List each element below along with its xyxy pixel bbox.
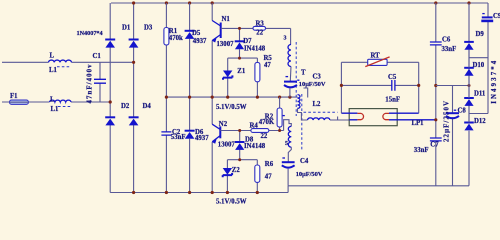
svg-text:IN4148: IN4148 bbox=[244, 45, 266, 52]
node: top rail / R1 column junction bbox=[165, 1, 168, 4]
svg-text:4937: 4937 bbox=[195, 135, 209, 142]
svg-text:T: T bbox=[301, 69, 306, 76]
node: top rail / C6 column junction bbox=[434, 1, 437, 4]
svg-text:22μF/250V: 22μF/250V bbox=[444, 100, 451, 142]
transformer core dash line A bbox=[295, 42, 297, 116]
wire: half-bridge center column (N1 collector / emitter, N2 collector) bbox=[211, 3, 213, 193]
resistor R5 bbox=[256, 58, 258, 97]
pin tick at lamp left bbox=[337, 117, 339, 121]
wire: bottom rail left section bbox=[110, 192, 288, 194]
svg-text:10μF/50V: 10μF/50V bbox=[299, 81, 326, 88]
svg-text:Z1: Z1 bbox=[237, 68, 246, 75]
node: mid node / Z1 junction bbox=[226, 96, 229, 99]
svg-text:1N4007*4: 1N4007*4 bbox=[77, 30, 103, 37]
wire: bottom AC input line bbox=[2, 101, 110, 103]
capacitor C1 plates bbox=[94, 79, 106, 83]
transformer T winding W2 (primary) bbox=[298, 95, 300, 109]
node: bottom rail / C2 junction bbox=[165, 191, 168, 194]
svg-text:D7: D7 bbox=[243, 38, 252, 45]
capacitor C4 (electrolytic) bbox=[282, 161, 295, 163]
transformer core dash line B bbox=[301, 94, 303, 150]
capacitor C9 (electrolytic) bbox=[482, 16, 493, 18]
wire: top DC rail bbox=[111, 2, 488, 4]
node: dot D8 bottom bbox=[238, 158, 241, 161]
svg-text:D3: D3 bbox=[144, 25, 153, 32]
svg-text:C1: C1 bbox=[93, 53, 102, 60]
node: top rail / N1 collector junction bbox=[211, 1, 214, 4]
svg-text:D9: D9 bbox=[476, 31, 485, 38]
node: dot charge wire at diode chain bbox=[468, 84, 471, 87]
node: mid node / R2 junction bbox=[278, 96, 281, 99]
diode D5 bbox=[185, 30, 195, 32]
node: C6 column / charge-pump wire junction bbox=[434, 84, 437, 87]
svg-text:IN4148: IN4148 bbox=[244, 143, 266, 150]
svg-text:R4: R4 bbox=[250, 123, 259, 130]
node: top rail / D3 column junction bbox=[132, 1, 135, 4]
wire: starter network right vertical bbox=[418, 62, 420, 113]
wire: W2 bottom lead step to L2 bbox=[298, 108, 308, 120]
svg-text:47: 47 bbox=[265, 174, 272, 181]
svg-text:D11: D11 bbox=[474, 91, 486, 98]
svg-text:C3: C3 bbox=[313, 73, 322, 80]
wire: bottom rail right section bbox=[288, 185, 469, 187]
svg-text:Z2: Z2 bbox=[232, 167, 241, 174]
zener Z2 bbox=[226, 160, 228, 193]
resistor R6 bbox=[256, 160, 258, 193]
svg-text:470K: 470K bbox=[259, 119, 275, 126]
resistor R1 bbox=[164, 28, 169, 46]
lamp LP1 tube bbox=[349, 109, 397, 126]
wire: C3 bottom lead bbox=[289, 88, 291, 97]
wire: R1/C2 column bbox=[165, 3, 167, 193]
core dashes under top inductor bbox=[57, 66, 71, 68]
svg-text:R6: R6 bbox=[265, 161, 274, 168]
capacitor C5 plates bbox=[392, 80, 395, 91]
svg-text:33nF: 33nF bbox=[414, 147, 429, 154]
node: bottom rail / N2 emitter junction bbox=[211, 191, 214, 194]
svg-text:4937: 4937 bbox=[193, 38, 207, 45]
diode D1 bbox=[105, 39, 115, 41]
svg-text:13007: 13007 bbox=[218, 142, 236, 149]
svg-text:470k: 470k bbox=[169, 35, 183, 42]
wire: C4 bottom lead bbox=[287, 169, 289, 186]
svg-text:5.1V/0.5W: 5.1V/0.5W bbox=[216, 104, 247, 111]
wire: bridge column D1/D2 bbox=[109, 3, 111, 193]
svg-text:33nF: 33nF bbox=[442, 46, 457, 53]
node: junction dot top AC at D3 column bbox=[132, 61, 135, 64]
svg-text:L: L bbox=[50, 96, 55, 103]
transistor N2 bbox=[212, 124, 220, 144]
svg-text:47: 47 bbox=[264, 62, 271, 69]
lamp left filament bbox=[357, 113, 363, 119]
pin tick W3 top bbox=[283, 115, 285, 117]
svg-text:D2: D2 bbox=[121, 103, 130, 110]
pin tick C3 right bbox=[297, 79, 299, 81]
node: mid node / R1-C2 column junction bbox=[165, 96, 168, 99]
zener Z1 bbox=[227, 58, 229, 97]
diode D11 bbox=[464, 97, 474, 99]
polarity tick C3 bbox=[286, 76, 289, 78]
diode D6 bbox=[185, 130, 195, 132]
svg-text:D4: D4 bbox=[143, 103, 152, 110]
wire: lower auxiliary line (Z2/D8/R6) bbox=[227, 159, 257, 161]
wire: C6/C7 column bbox=[435, 3, 437, 186]
svg-text:L2: L2 bbox=[313, 101, 322, 108]
node: C5 branch right junction bbox=[417, 84, 420, 87]
node: dot D7 bottom bbox=[238, 57, 241, 60]
diode D4 bbox=[129, 116, 139, 118]
polarity tick C4 bbox=[282, 157, 285, 159]
svg-text:D5: D5 bbox=[192, 30, 201, 37]
capacitor C6 plates bbox=[430, 42, 442, 45]
wire: tap D11/D12 to C9 column bbox=[469, 113, 488, 115]
node: bottom rail / D6 junction bbox=[188, 191, 191, 194]
svg-text:D10: D10 bbox=[473, 62, 485, 69]
svg-text:LP1: LP1 bbox=[412, 120, 425, 127]
svg-text:IN4937*4: IN4937*4 bbox=[491, 59, 498, 104]
inductor L (bottom winding of line filter) bbox=[50, 100, 72, 102]
svg-text:10μF/50V: 10μF/50V bbox=[296, 171, 323, 178]
wire: bottom rail step bbox=[287, 186, 289, 193]
wire: starter network left vertical bbox=[340, 62, 342, 113]
fuse F1 bbox=[10, 100, 29, 104]
resistor R4 bbox=[251, 129, 269, 133]
svg-text:L1: L1 bbox=[49, 67, 58, 74]
wire: diode chain mid leads bbox=[468, 50, 470, 123]
svg-text:5.1V/0.5W: 5.1V/0.5W bbox=[216, 198, 247, 205]
wire: N2 base line bbox=[220, 120, 291, 131]
svg-text:R3: R3 bbox=[256, 21, 265, 28]
transformer T winding W3 bbox=[288, 126, 291, 147]
core dashes under bottom inductor bbox=[58, 106, 71, 108]
svg-text:F1: F1 bbox=[10, 93, 18, 100]
node: C5 branch left junction bbox=[340, 84, 343, 87]
wire: half-bridge mid node bbox=[166, 96, 297, 98]
node: top rail / D5 column junction bbox=[188, 1, 191, 4]
diode D12 bbox=[464, 122, 474, 124]
polarity tick C8 bbox=[454, 109, 456, 111]
svg-text:L: L bbox=[50, 53, 55, 60]
svg-text:3: 3 bbox=[284, 36, 287, 42]
svg-text:13007: 13007 bbox=[217, 41, 235, 48]
capacitor C1 branch leads bbox=[99, 62, 101, 102]
node: bottom rail / D4 junction bbox=[132, 191, 135, 194]
node: mid node / D5-D6 column junction bbox=[188, 96, 191, 99]
node: dot D7 top bbox=[238, 27, 241, 30]
svg-text:5: 5 bbox=[285, 141, 288, 147]
diode D9 bbox=[464, 41, 474, 43]
diode D3 bbox=[129, 39, 139, 41]
node: bottom rail / Z2 junction bbox=[226, 191, 229, 194]
wire: tap D9/D10 to C9 column bbox=[469, 57, 488, 59]
resistor R3 bbox=[253, 26, 266, 30]
svg-text:RT: RT bbox=[371, 52, 381, 59]
wire: C9 column bbox=[487, 3, 489, 114]
diode D7 branch bbox=[239, 28, 241, 58]
svg-text:N2: N2 bbox=[219, 121, 228, 128]
transistor N1 bbox=[212, 21, 221, 43]
capacitor C3 (electrolytic) bbox=[284, 81, 297, 83]
inductor L2 core dash line bbox=[304, 111, 338, 113]
svg-text:C6: C6 bbox=[442, 36, 451, 43]
capacitor C7 plates bbox=[430, 138, 442, 141]
node: bottom rail / R6 junction bbox=[256, 191, 259, 194]
inductor L2 bbox=[308, 118, 330, 120]
thermistor RT bbox=[368, 59, 387, 65]
node: mid node / C3 junction bbox=[288, 96, 291, 99]
wire: bridge column D3/D4 bbox=[133, 3, 135, 193]
svg-text:C5: C5 bbox=[388, 74, 397, 81]
node: top rail / D9 column junction bbox=[467, 1, 470, 4]
wire: C5 branch bbox=[341, 84, 418, 86]
svg-text:L1: L1 bbox=[51, 106, 60, 113]
wire: diode chain column D9-D12 bbox=[468, 3, 470, 186]
svg-text:D1: D1 bbox=[122, 25, 131, 32]
node: junction dot bottom AC at D1 column bbox=[109, 100, 112, 103]
wire: starter network top branch bbox=[341, 61, 418, 63]
transformer T winding W1 bbox=[288, 45, 291, 67]
svg-text:22: 22 bbox=[256, 30, 263, 37]
svg-text:47nF/400v: 47nF/400v bbox=[86, 63, 93, 103]
svg-text:53nF: 53nF bbox=[171, 134, 186, 141]
svg-text:C8: C8 bbox=[458, 108, 467, 115]
node: dot D8 top bbox=[238, 129, 241, 132]
wire: charge pump horizontal bbox=[436, 85, 469, 87]
wire: W1 bottom lead to C3 bbox=[289, 67, 292, 82]
node: C6 column / lamp return junction bbox=[434, 118, 437, 121]
lamp right filament pins bbox=[389, 113, 436, 120]
capacitor C2 plates bbox=[161, 132, 171, 135]
svg-text:C4: C4 bbox=[300, 158, 309, 165]
wire: stub bracket right of W2 bbox=[304, 88, 308, 98]
inductor L (top winding of line filter) bbox=[49, 60, 72, 62]
diode D8 branch bbox=[239, 131, 241, 160]
svg-text:C9: C9 bbox=[493, 13, 500, 20]
capacitor C8 branch (electrolytic) bbox=[452, 86, 454, 186]
node: mid node / R5 junction bbox=[256, 96, 259, 99]
svg-text:N1: N1 bbox=[222, 16, 231, 23]
node: dot R2 bottom bbox=[278, 129, 281, 132]
svg-text:D12: D12 bbox=[474, 118, 486, 125]
wire: upper auxiliary line (Z1/D7/R5) bbox=[228, 57, 258, 59]
diode D10 bbox=[464, 67, 474, 69]
diode D2 bbox=[105, 116, 115, 118]
wire: top AC input line bbox=[2, 61, 134, 63]
wire: W3 bottom lead to C4 bbox=[288, 147, 291, 161]
svg-text:22: 22 bbox=[261, 133, 268, 140]
wire: D5/D6 column bbox=[189, 3, 191, 193]
polarity tick C9 bbox=[482, 13, 484, 15]
svg-text:C7: C7 bbox=[430, 141, 439, 148]
node: mid node / emitter column junction bbox=[211, 96, 214, 99]
lamp left filament pins bbox=[341, 113, 357, 120]
resistor R2 bbox=[279, 97, 281, 130]
svg-text:15nF: 15nF bbox=[385, 96, 400, 103]
lamp right filament bbox=[383, 113, 389, 119]
wire: N1 base line bbox=[221, 28, 291, 44]
wire: L2 to lamp bottom pin bbox=[330, 119, 349, 121]
